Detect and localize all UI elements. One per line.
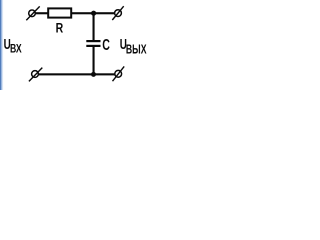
node junction dot bottom (91, 72, 96, 77)
svg-text:R: R (56, 20, 64, 36)
resistor R (48, 8, 71, 17)
svg-text:C: C (102, 36, 110, 54)
svg-text:ВЫХ: ВЫХ (126, 43, 147, 57)
capacitor C bottom plate (86, 45, 100, 47)
terminal input bottom (29, 68, 42, 82)
wire vertical capacitor branch upper (93, 13, 95, 41)
terminal output top (112, 6, 123, 20)
wire bottom horizontal (37, 73, 116, 75)
wire vertical capacitor branch lower (93, 46, 95, 75)
svg-text:ВХ: ВХ (10, 42, 22, 56)
terminal output bottom (113, 66, 125, 81)
net label U_vx (input voltage) (4, 36, 23, 56)
capacitor C top plate (86, 40, 100, 42)
net label U_vyx (output voltage) (120, 36, 147, 57)
blue left edge stripe (0, 0, 3, 90)
wire top horizontal (34, 12, 115, 14)
node junction dot top (91, 11, 96, 16)
terminal input top (26, 6, 39, 20)
